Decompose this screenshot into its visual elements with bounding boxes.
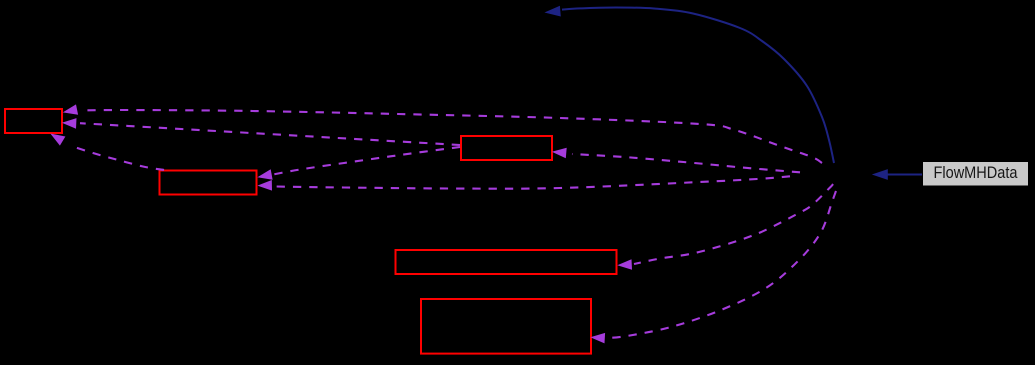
svg-text:FlowMHData: FlowMHData	[934, 164, 1019, 182]
usage edge: node C to node B (upper)	[257, 147, 460, 180]
usage edge: hub node to node D	[617, 184, 833, 270]
node FlowMHData (current class, grey)	[923, 162, 1028, 186]
node D	[396, 250, 617, 274]
usage edge: hub node to node E	[590, 191, 836, 343]
usage edge: hub node to node A (upper)	[63, 104, 822, 163]
node E	[421, 299, 591, 354]
usage edge: node B to node A (corner)	[50, 134, 164, 171]
inheritance edge: hub node to invisible base class at top	[544, 6, 834, 163]
node C	[461, 136, 552, 160]
inheritance edge: FlowMHData to hub node	[872, 169, 922, 180]
node A (truncated class, top-left)	[5, 109, 62, 133]
usage edge: node C to node A	[62, 118, 460, 145]
usage edge: hub node to node C	[552, 148, 800, 173]
node B	[160, 171, 257, 195]
usage edge: hub node to node B (lower)	[257, 176, 790, 190]
